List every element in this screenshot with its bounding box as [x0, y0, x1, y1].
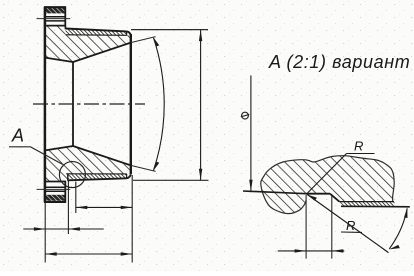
bottom rim top edge	[44, 181, 66, 183]
dimension overall length arrows	[45, 252, 132, 255]
phi symbol	[242, 112, 249, 119]
angle arc arrows	[389, 208, 408, 250]
hatch bottom sleeve band	[68, 174, 127, 179]
detail surface line left	[243, 191, 306, 194]
bore edge vertical	[72, 62, 74, 147]
bottom rim thread line 1	[45, 186, 65, 188]
groove end extension vertical	[331, 196, 333, 259]
top rim top edge	[44, 6, 66, 8]
inner cone extension lower	[131, 165, 156, 171]
svg-text:R: R	[346, 218, 355, 233]
detail diameter dimension line	[250, 76, 252, 191]
groove width arrows	[295, 249, 344, 252]
cone angle arc arrows	[153, 37, 159, 171]
hatch top wall section	[45, 26, 131, 62]
svg-text:R: R	[354, 139, 363, 154]
top extension line right	[131, 29, 208, 31]
dimension overall length line	[45, 253, 132, 255]
hatch bottom wall section	[45, 146, 131, 181]
inner bore line lower left	[44, 146, 73, 151]
top rim thread line 2	[45, 20, 65, 22]
top rim bottom edge	[44, 25, 66, 27]
cone angle arc	[154, 38, 165, 171]
diameter dimension arrows	[199, 30, 202, 181]
seat plate top line	[339, 201, 394, 203]
bottom rim bottom edge	[44, 201, 66, 203]
bottom sleeve right end	[126, 174, 128, 179]
hatch top sleeve band	[66, 29, 127, 35]
inner cone extension upper	[131, 37, 156, 43]
top right chamfer	[127, 31, 131, 35]
angle slant leader line	[306, 194, 388, 253]
part left edge	[44, 7, 47, 202]
hatch top rim band	[45, 8, 65, 14]
top rim thread line 1	[45, 16, 65, 18]
top step edge	[64, 26, 66, 29]
inner cone line lower	[73, 146, 131, 165]
centerline axis	[33, 103, 145, 105]
top sleeve right end	[126, 31, 128, 35]
hatch bottom rim band	[45, 195, 65, 201]
top outer surface	[65, 29, 126, 32]
detail blob outline top right	[270, 156, 395, 202]
svg-text:A: A	[11, 126, 24, 146]
right face edge	[130, 34, 132, 174]
groove vertical edge	[67, 174, 69, 181]
inner cone line upper	[73, 43, 131, 62]
groove root extension vertical	[305, 195, 307, 259]
extension line left lower	[44, 203, 46, 263]
groove exit slant	[330, 194, 339, 202]
R leader arrow at root	[308, 195, 318, 201]
inner bore line upper left	[44, 58, 73, 63]
seat plate bottom line	[341, 205, 410, 208]
svg-text:A (2:1) вариант: A (2:1) вариант	[268, 52, 410, 72]
bottom seat surface	[68, 178, 127, 180]
bottom right chamfer	[127, 174, 131, 178]
groove ceiling line	[306, 193, 330, 195]
upper R underline	[347, 153, 375, 155]
lower R underline	[341, 231, 362, 233]
bottom extension line right	[133, 179, 209, 181]
detail blob hatch	[261, 156, 394, 214]
extension line right lower	[131, 175, 133, 263]
top thread extension line	[37, 18, 71, 20]
angle dimension arc	[389, 208, 407, 248]
diameter dimension line	[200, 30, 202, 181]
top sleeve inner line	[66, 34, 127, 37]
extension line seat start	[75, 182, 77, 214]
bottom rim right edge	[64, 181, 66, 202]
bottom thread extension line	[37, 188, 71, 190]
top rim right edge	[64, 7, 66, 27]
dimension groove pos arrows	[34, 227, 80, 230]
bottom rim thread line 2	[45, 190, 65, 192]
dimension groove pos line	[23, 228, 103, 230]
dimension seat length line	[76, 206, 132, 208]
extension line groove	[67, 181, 69, 234]
detail circle A	[59, 162, 85, 188]
bottom sleeve inner line	[66, 173, 127, 175]
detail diameter arrow	[249, 180, 252, 192]
dimension seat length arrows	[76, 206, 132, 209]
leader A underline	[9, 147, 63, 165]
detail blob outline left	[261, 169, 306, 213]
groove width dimension line	[278, 250, 345, 252]
upper R leader	[308, 154, 347, 194]
seat plate hatch	[339, 202, 394, 206]
